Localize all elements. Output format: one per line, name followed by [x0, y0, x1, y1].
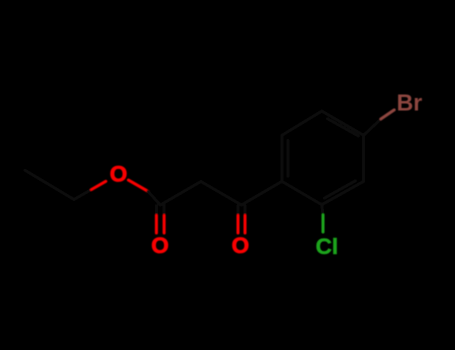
- bond CH2-C3 bridge: [201, 182, 242, 206]
- svg-text:Cl: Cl: [316, 234, 339, 259]
- ring inner double bond bottom-right edge: [324, 181, 355, 198]
- wire: [25, 110, 394, 233]
- ketone C=O double bond dark top: [238, 206, 245, 216]
- ester C=O double bond dark top: [156, 206, 164, 216]
- svg-text:O: O: [151, 233, 169, 258]
- bond ring-Br dark half: [364, 119, 381, 135]
- ketone C=O double bond red: [238, 216, 245, 234]
- ester C=O double bond red: [156, 216, 164, 234]
- bond CH2-O red half: [92, 181, 106, 189]
- bond ring-Cl dark half: [322, 205, 323, 215]
- ethyl CH3-CH2 bond: [25, 170, 74, 199]
- svg-text:Br: Br: [397, 90, 423, 116]
- svg-text:O: O: [232, 233, 250, 258]
- benzene ring outline: [282, 111, 364, 205]
- bond CH2-O dark half: [74, 190, 92, 200]
- bond O-C1 dark half: [148, 191, 160, 205]
- bond ring-Cl green half: [322, 215, 325, 232]
- ring inner double bond top-right edge: [327, 119, 358, 136]
- bond O-C1 red half: [128, 180, 148, 191]
- ring inner double bond left edge: [286, 141, 289, 177]
- bond C1-CH2 bridge: [160, 182, 201, 206]
- bond C3-ring ipso: [242, 181, 282, 205]
- bond ring-Br brown half: [381, 110, 394, 119]
- svg-text:O: O: [110, 161, 128, 186]
